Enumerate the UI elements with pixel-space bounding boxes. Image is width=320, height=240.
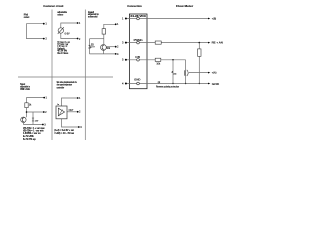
svg-text:(1+2) = 5+2.5V + var: (1+2) = 5+2.5V + var	[54, 129, 74, 132]
svg-text:contact: contact	[24, 16, 30, 19]
svg-text:GND: GND	[134, 78, 140, 82]
svg-text:PWM 1-5 kHz: PWM 1-5 kHz	[20, 89, 30, 91]
svg-text:controller: controller	[57, 86, 65, 89]
svg-text:RE + AN: RE + AN	[212, 41, 223, 45]
svg-text:Customer circuit: Customer circuit	[43, 4, 63, 8]
svg-text:+(B): +(B)	[212, 16, 217, 20]
svg-text:OUT: OUT	[69, 110, 74, 112]
svg-text:0-5V: 0-5V	[65, 31, 70, 35]
svg-text:Flow Meter: Flow Meter	[176, 4, 194, 8]
svg-text:PWMin: PWMin	[134, 38, 144, 42]
svg-text:Set value implemented via: Set value implemented via	[57, 81, 78, 84]
svg-text:F/B: F/B	[135, 55, 140, 59]
svg-text:24v: 24v	[173, 73, 176, 75]
svg-text:12 V: 12 V	[90, 47, 95, 49]
svg-text:Connection: Connection	[127, 4, 142, 8]
svg-text:slow speed temperature: slow speed temperature	[57, 84, 73, 87]
svg-text:+(A): +(A)	[212, 71, 217, 75]
svg-text:source: source	[57, 15, 63, 17]
svg-text:7+4/2) = 4.5 - 4V low: 7+4/2) = 4.5 - 4V low	[54, 132, 74, 135]
svg-text:E-7V+5%: E-7V+5%	[23, 136, 34, 138]
svg-text:1.5V/5% = var on: 1.5V/5% = var on	[23, 132, 41, 135]
svg-text:5+7V-7% up: 5+7V-7% up	[23, 139, 36, 141]
svg-text:Rise 4 V above: Rise 4 V above	[57, 52, 68, 55]
svg-text:solenoid: solenoid	[88, 17, 98, 19]
svg-text:GND: GND	[212, 82, 220, 86]
svg-text:Reverse polarity protection: Reverse polarity protection	[156, 86, 180, 89]
svg-text:12V: 12V	[35, 120, 39, 122]
